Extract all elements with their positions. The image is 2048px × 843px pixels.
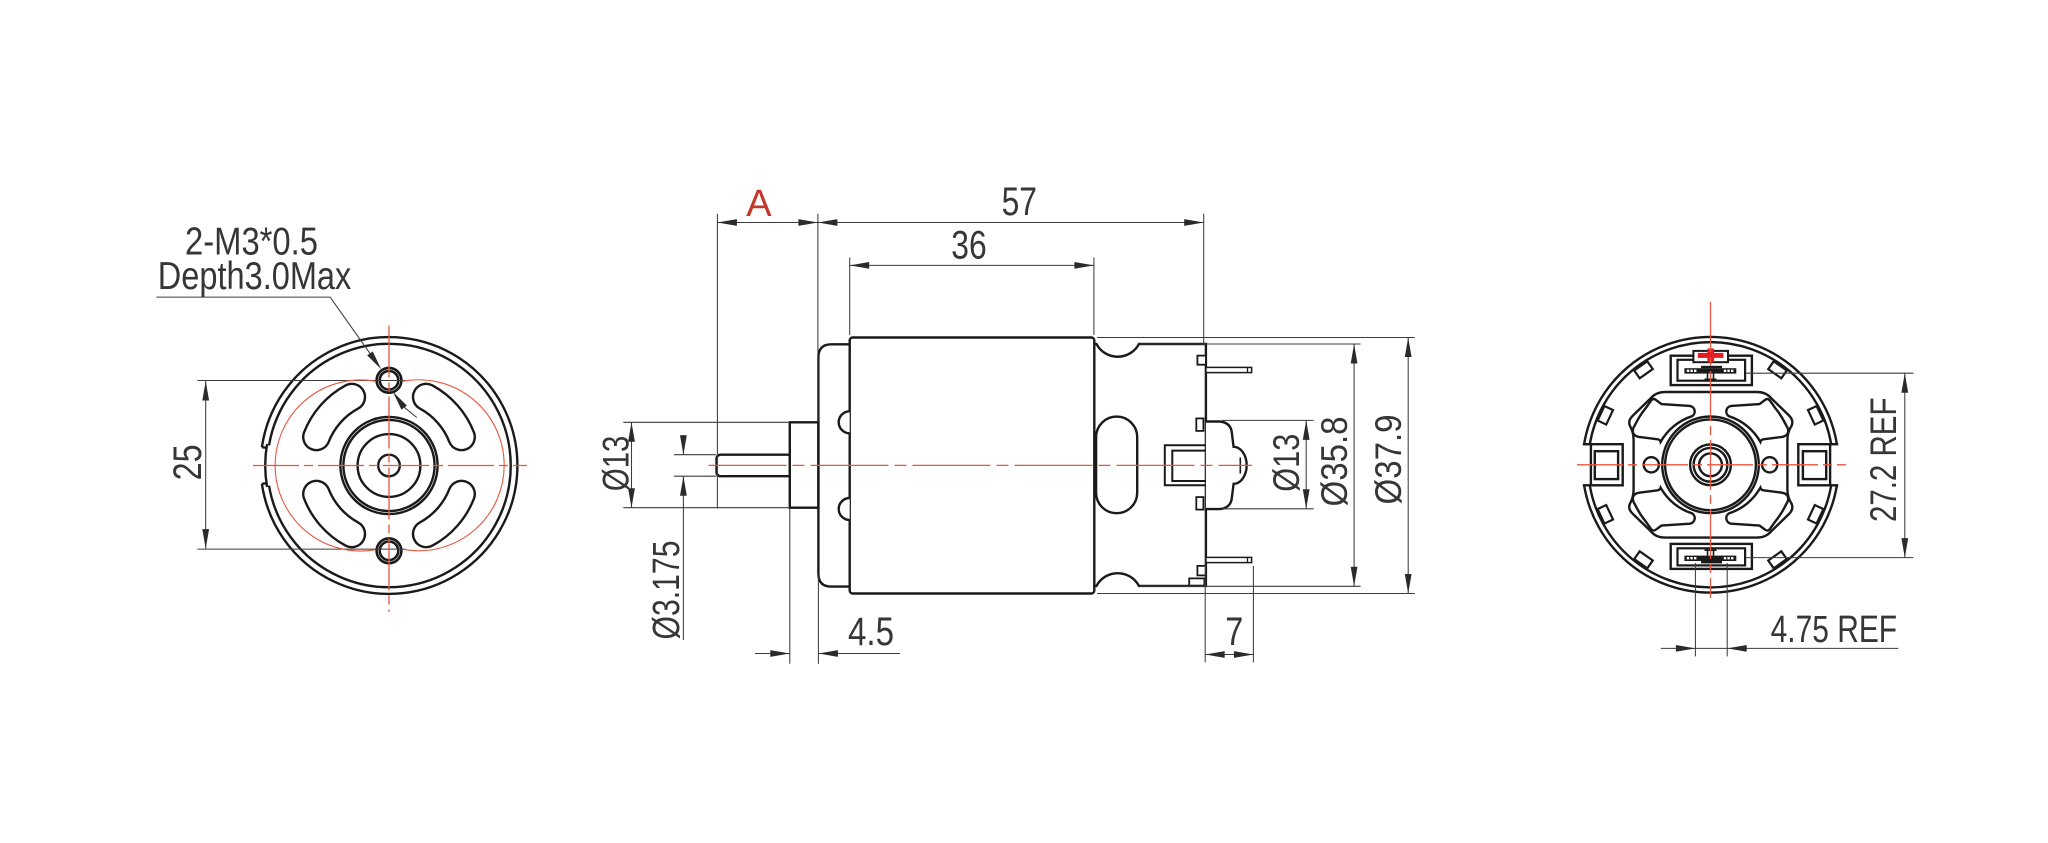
svg-text:Depth3.0Max: Depth3.0Max <box>158 255 352 298</box>
side view: motor can <box>850 338 1095 594</box>
side view: rear endbell outline <box>1094 344 1206 586</box>
side view: bump root tab upper <box>1196 418 1203 431</box>
side view: face tab upper <box>1197 356 1206 365</box>
dimension dia3.175: arrows (outside) <box>680 435 687 455</box>
leader arrowhead at hole <box>367 351 384 371</box>
front view: top mounting hole M3 <box>377 368 402 393</box>
front view: notch step connectors <box>262 446 267 449</box>
svg-text:36: 36 <box>951 224 986 268</box>
second leader tail <box>404 407 417 418</box>
rear view: right small hole <box>1762 457 1777 472</box>
rear view: top terminal block <box>1671 356 1752 385</box>
front view: bottom mounting hole M3 <box>377 538 402 563</box>
dimension 25: dimension line <box>205 381 207 549</box>
dimension dia37.9: extension lines <box>1097 337 1415 339</box>
svg-text:4.5: 4.5 <box>848 610 894 654</box>
second leader arrowhead <box>390 390 407 410</box>
front view: horizontal centerline <box>253 465 527 467</box>
svg-text:Ø37.9: Ø37.9 <box>1368 415 1409 505</box>
side view: front screw hole semicircle bottom <box>839 498 850 520</box>
dimension dia13 front: dimension line <box>631 422 633 507</box>
front view: outer housing circle (with left notch gap) <box>262 337 517 594</box>
side view: horizontal centerline <box>709 464 1253 466</box>
front view: left notch arc <box>265 444 267 487</box>
dimension A: dimension line <box>717 222 818 224</box>
dimension dia37.9: arrows <box>1405 338 1412 358</box>
side view: endbell corner block bottom <box>1189 578 1204 585</box>
rear view: vent cutout upper-left <box>1633 399 1695 442</box>
front view: vertical centerline <box>388 326 390 613</box>
rear view: bottom terminal block <box>1671 544 1752 569</box>
leader underline <box>156 296 330 298</box>
front view: inner rim circle (interrupted at left notch) <box>269 344 511 587</box>
dimension dia37.9: dimension line <box>1407 338 1409 594</box>
rear view: left small hole <box>1644 457 1659 472</box>
side view: rear bearing pocket outer <box>1165 445 1206 485</box>
dimension 4.5: dimension line and tails <box>755 653 790 655</box>
dimension dia13 rear: dimension line <box>1305 420 1307 508</box>
dimension dia13 front: arrows <box>628 422 635 442</box>
dimension A: extension lines <box>716 214 718 509</box>
front view: vent slot lower-right <box>413 481 475 547</box>
rear view: vent cutout lower-right <box>1726 488 1788 531</box>
dimension dia13 front: extension lines <box>623 421 790 423</box>
dimension 7: arrows <box>1205 651 1225 658</box>
dimension 27.2 REF: arrows <box>1901 373 1908 393</box>
rear view: shaft end rings <box>1690 444 1731 485</box>
dimension 7: dimension line <box>1205 654 1253 656</box>
front view: bearing boss circles <box>340 417 437 514</box>
rear view: rim crimp tabs <box>1808 406 1823 425</box>
rear view: outer rim circle arcs <box>1584 337 1837 444</box>
svg-text:7: 7 <box>1225 610 1243 654</box>
dimension 36: arrows <box>850 262 870 269</box>
front view: vent slot upper-right <box>413 384 475 450</box>
front view: bolt circle (red construction circle) <box>275 380 375 551</box>
side view: terminal blade lower <box>1206 557 1252 562</box>
dimension dia35.8: dimension line <box>1353 344 1355 586</box>
side view: front screw hole semicircle top <box>839 411 850 433</box>
rear view: vent cutout upper-right <box>1726 399 1788 442</box>
front view: shaft hole <box>378 455 400 477</box>
dimension dia13 rear: arrows <box>1303 420 1310 440</box>
side view: shaft <box>717 455 790 477</box>
rear view: horizontal centerline <box>1577 464 1846 466</box>
side view: face tab lower <box>1197 566 1206 576</box>
rear view: right side pocket <box>1830 443 1838 445</box>
front view: vent slot lower-left <box>303 481 365 547</box>
side view: bump root tab lower <box>1196 497 1203 510</box>
leader line to hole <box>330 297 374 360</box>
svg-text:27.2 REF: 27.2 REF <box>1863 398 1904 523</box>
side view: front endbell <box>818 344 849 586</box>
dimension 25: arrows <box>202 381 209 401</box>
rear view: bearing boss circles <box>1662 417 1759 514</box>
dimension 4.75 REF: extension lines <box>1694 563 1696 656</box>
rear view: raised platform outline <box>1629 392 1792 538</box>
dimension dia35.8: extension lines <box>1140 343 1361 345</box>
dimension 4.75 REF: dimension line <box>1661 647 1898 649</box>
dimension dia13 rear: extension lines <box>1222 419 1314 421</box>
side view: terminal blade upper <box>1206 367 1252 372</box>
svg-text:A: A <box>746 183 772 225</box>
dimension 36: extension lines <box>849 258 851 336</box>
dimension 57: arrows <box>818 219 838 226</box>
dimension dia3.175: extension ticks <box>674 454 716 456</box>
dimension 27.2 REF: extension lines <box>1746 372 1913 374</box>
dimension 36: dimension line <box>850 264 1094 266</box>
svg-text:25: 25 <box>166 444 210 480</box>
dimension 7: extension lines <box>1204 563 1206 662</box>
dimension 27.2 REF: dimension line <box>1904 373 1906 557</box>
rear view: left side pocket <box>1583 443 1591 445</box>
rear view: vent cutout lower-left <box>1633 488 1695 531</box>
dimension dia3.175: dimension line <box>682 435 684 455</box>
rear view: inner rim circle arcs <box>1590 342 1831 444</box>
dimension 4.5: extension lines <box>789 509 791 664</box>
rear view: polarity box <box>1693 351 1728 362</box>
side view: rear vent slot <box>1096 417 1137 514</box>
svg-text:Ø3.175: Ø3.175 <box>646 541 688 640</box>
svg-text:Ø35.8: Ø35.8 <box>1314 417 1355 507</box>
side view: rear bearing pocket inner <box>1172 451 1206 481</box>
dimension 25: extension lines <box>197 380 405 382</box>
svg-text:4.75 REF: 4.75 REF <box>1771 609 1898 651</box>
dimension 57: dimension line <box>818 222 1204 224</box>
side view: rear bearing bump <box>1206 422 1247 510</box>
svg-text:Ø13: Ø13 <box>1266 434 1307 492</box>
dimension A: arrows <box>717 219 737 226</box>
svg-text:Ø13: Ø13 <box>596 436 637 492</box>
side view: bump tip tick <box>1239 458 1241 474</box>
rear view: vertical centerline <box>1710 302 1712 598</box>
rear view: red plus mark <box>1698 353 1724 358</box>
dimension 4.75 REF: arrows (outside) <box>1676 645 1696 652</box>
svg-text:57: 57 <box>1002 180 1037 224</box>
front view: vent slot upper-left <box>303 384 365 450</box>
dimension dia35.8: arrows <box>1351 344 1358 364</box>
dimension 4.5: arrows (outside) <box>770 650 790 657</box>
side view: bearing hub <box>790 422 819 507</box>
